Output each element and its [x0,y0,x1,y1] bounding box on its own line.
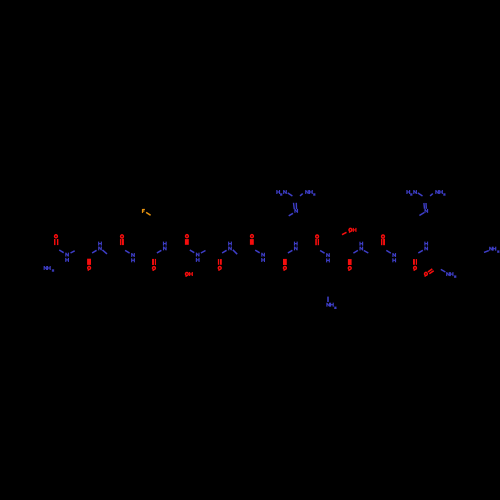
backbone amide N9 with H [320,251,329,263]
carbonyl C=O (O up) #3 [186,235,189,245]
carbonyl C=O (O down) #4 [284,259,287,271]
backbone amide N12 with H [418,242,427,253]
lysine side chain NH2 (far right) [484,247,499,253]
carbonyl C=O (O up) #1 [55,235,58,245]
backbone amide N1 with H [59,250,74,262]
lysine side chain NH2 (bottom) [327,297,337,309]
guanidine group (Arg #2 side chain) [407,190,446,216]
carbonyl C=O (O down) #6 [414,259,417,271]
carbonyl C=O (O down) #1 [88,259,91,271]
carbonyl C=O (O down) #5 [348,259,351,271]
N-terminal NH2 [44,266,54,271]
hydroxyl OH (lower side chain) [186,272,193,277]
carbonyl C=O (O up) #2 [121,235,124,245]
C-terminal amide NH2 [441,269,457,277]
backbone amide N3 with H [125,250,134,262]
backbone amide N11 with H [386,250,395,262]
backbone amide N10 with H [353,242,368,253]
carbonyl C=O (O down) #2 [153,259,156,271]
backbone amide N6 with H [222,242,237,255]
backbone amide N5 with H [190,250,206,262]
backbone amide N4 with H [157,242,166,253]
hydroxyl OH (upper side chain) [342,228,356,235]
C-terminal amide C=O [425,269,434,277]
carbonyl C=O (O up) #5 [316,235,319,245]
guanidine group (Arg #1 side chain) [277,190,316,216]
backbone amide N8 with H [288,242,297,253]
fluorine F on phenyl ring [143,209,151,215]
backbone amide N7 with H [255,250,264,262]
carbonyl C=O (O down) #3 [218,259,221,271]
carbonyl C=O (O up) #4 [251,235,254,245]
backbone amide N2 with H [92,242,107,254]
carbonyl C=O (O up) #6 [382,235,385,245]
